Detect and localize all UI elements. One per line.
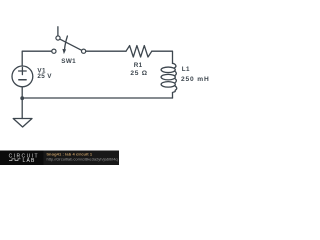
switch SW1 left terminal xyxy=(52,49,56,53)
svg-text:SW1: SW1 xyxy=(61,58,76,65)
svg-text:LAB: LAB xyxy=(23,158,36,164)
ground xyxy=(13,119,32,128)
wire bottom horizontal xyxy=(22,97,172,99)
credit box xyxy=(44,151,120,166)
V1 minus sign xyxy=(19,79,26,81)
V1 plus sign xyxy=(19,67,27,74)
switch SW1 arrow xyxy=(65,36,68,49)
wire resistor-to-corner and right vertical top xyxy=(152,51,173,63)
voltage source V1 xyxy=(12,66,33,87)
svg-text:25 V: 25 V xyxy=(37,73,52,80)
watermark bar xyxy=(0,151,119,166)
inductor L1 xyxy=(161,63,177,93)
wire source-to-ground vertical xyxy=(21,87,23,119)
wire right vertical bottom xyxy=(172,93,174,99)
svg-text:L1: L1 xyxy=(182,66,190,73)
switch SW1 blade xyxy=(60,39,81,50)
wire top-right horizontal xyxy=(86,50,126,52)
wire switch top stub xyxy=(57,27,59,36)
resistor R1 xyxy=(126,46,152,57)
svg-text:25 Ω: 25 Ω xyxy=(130,70,147,77)
switch SW1 right terminal xyxy=(82,49,86,53)
switch SW1 top terminal xyxy=(56,36,60,40)
svg-text:R1: R1 xyxy=(134,62,143,69)
junction node xyxy=(20,96,24,100)
wire top-left horizontal xyxy=(22,51,51,66)
svg-text:http.//circuitlab.com/c/8ke3a2: http.//circuitlab.com/c/8ke3a2yh/ja6lbt4… xyxy=(47,156,118,161)
svg-text:250 mH: 250 mH xyxy=(181,76,210,83)
switch SW1 arrowhead xyxy=(62,49,66,54)
logo waveform glyph xyxy=(9,159,21,161)
